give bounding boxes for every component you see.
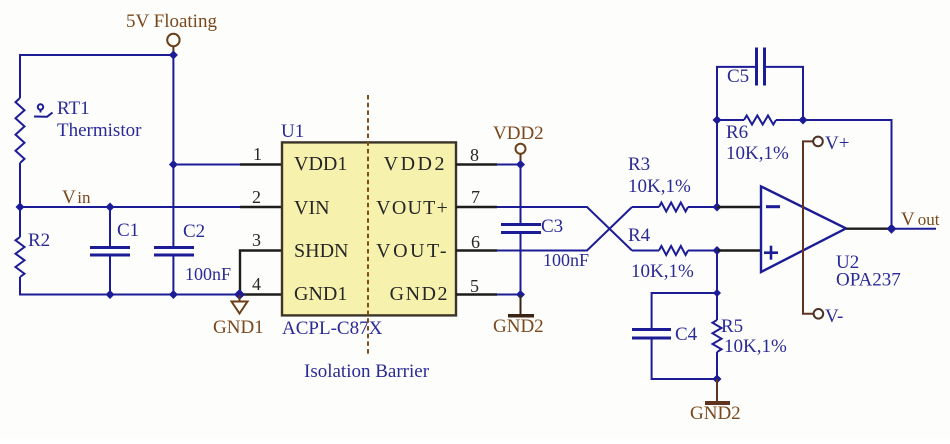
wire R3 left lead xyxy=(632,206,659,208)
wire R4 left lead xyxy=(632,250,659,252)
wire pin8 to VDD2 node xyxy=(497,164,521,166)
wire top rail from left rail to 5V node xyxy=(20,54,174,56)
node GND1 junction xyxy=(234,289,245,300)
pin 2 of U1 xyxy=(240,206,282,208)
label V out xyxy=(901,209,940,230)
node R6 left xyxy=(713,116,722,125)
svg-text:Vin: Vin xyxy=(62,187,91,208)
node inverting input xyxy=(713,203,722,212)
label Vin xyxy=(62,187,91,208)
label C3 xyxy=(541,216,563,237)
pin 6 of U1 xyxy=(456,249,497,251)
node output xyxy=(887,224,897,234)
wire left rail Vin to R2 xyxy=(19,207,21,237)
svg-text:7: 7 xyxy=(471,187,480,207)
wire feedback top to output xyxy=(803,120,892,229)
pin 8 of U1 xyxy=(456,163,497,165)
svg-text:R4: R4 xyxy=(628,225,651,246)
label Thermistor xyxy=(57,120,142,141)
svg-text:5V Floating: 5V Floating xyxy=(126,11,217,32)
svg-text:R3: R3 xyxy=(628,154,650,175)
svg-text:10K,1%: 10K,1% xyxy=(724,336,787,357)
wire feedback left vertical xyxy=(716,120,718,207)
label 100nF C3 xyxy=(543,250,589,270)
label R4 xyxy=(628,225,651,246)
label U2 xyxy=(836,252,859,273)
wire C5 loop left xyxy=(717,67,756,120)
label C5 xyxy=(727,66,749,87)
label GND2 under C3 xyxy=(493,316,544,337)
svg-text:100nF: 100nF xyxy=(543,250,589,270)
wire Vin rail xyxy=(20,206,241,208)
resistor R3 xyxy=(659,203,688,212)
label pin 6 xyxy=(471,232,480,252)
wire C4 top branch xyxy=(652,293,717,328)
resistor R5 xyxy=(713,320,722,352)
svg-text:Thermistor: Thermistor xyxy=(57,120,142,141)
label 100nF xyxy=(185,264,231,284)
svg-text:3: 3 xyxy=(252,230,261,250)
resistor R2 xyxy=(16,237,25,277)
ground GND2 (under C3) xyxy=(508,295,534,316)
terminal V+ xyxy=(813,137,823,147)
wire R5 top lead xyxy=(716,293,718,320)
svg-text:Isolation Barrier: Isolation Barrier xyxy=(304,361,430,382)
label pin 7 xyxy=(471,187,480,207)
svg-text:8: 8 xyxy=(470,145,479,165)
wire R5 bottom lead xyxy=(716,352,718,379)
label pin 4 xyxy=(252,274,261,294)
svg-text:OPA237: OPA237 xyxy=(836,270,901,291)
pin name VDD2 xyxy=(384,153,447,175)
label U1 xyxy=(281,121,304,142)
wire left rail upper (to RT1) xyxy=(19,54,21,98)
label GND2 bottom xyxy=(690,403,741,424)
label RT1 xyxy=(57,98,90,119)
wire R6 right lead xyxy=(776,119,803,121)
label R6 xyxy=(726,122,748,143)
op-amp U2 input pin plus xyxy=(717,249,761,251)
wire pin5 to C3 bottom xyxy=(497,294,521,296)
svg-text:C5: C5 xyxy=(727,66,749,87)
label C1 xyxy=(117,220,139,241)
isolation barrier dashed line xyxy=(367,95,369,355)
label Isolation Barrier xyxy=(304,361,430,382)
pin 3 of U1 (SHDN to GND1) xyxy=(240,251,282,295)
terminal 5V Floating xyxy=(167,34,179,53)
op-amp U2 triangle xyxy=(761,186,846,272)
wire 5V vertical down to C2 xyxy=(172,55,174,247)
pin 7 of U1 xyxy=(456,206,497,208)
svg-text:R2: R2 xyxy=(28,230,50,251)
node GND2 bottom xyxy=(713,375,722,384)
svg-text:GND2: GND2 xyxy=(390,283,449,305)
pin name VOUT+ xyxy=(376,197,449,219)
label R5 xyxy=(721,316,743,337)
node C4 branch xyxy=(713,289,721,297)
label 5V Floating xyxy=(126,11,217,32)
op-amp U2 input pin minus xyxy=(717,206,761,208)
label V+ xyxy=(825,133,849,154)
terminal VDD2 xyxy=(516,144,526,163)
svg-text:10K,1%: 10K,1% xyxy=(628,176,691,197)
svg-text:2: 2 xyxy=(252,187,261,207)
label GND1 xyxy=(213,317,264,338)
svg-text:VOUT-: VOUT- xyxy=(376,240,449,262)
pin name VDD1 xyxy=(294,153,347,175)
wire VOUT- net to crossover xyxy=(497,207,632,251)
wire C4 bottom branch xyxy=(652,339,717,379)
label pin 8 xyxy=(470,145,479,165)
capacitor C5 xyxy=(757,48,765,86)
wire RT1 to Vin rail xyxy=(19,163,21,207)
label pin 2 xyxy=(252,187,261,207)
label pin 3 xyxy=(252,230,261,250)
ground GND1 xyxy=(232,295,248,314)
wire pin1 net xyxy=(173,164,241,166)
capacitor C2 xyxy=(154,248,194,295)
svg-text:V-: V- xyxy=(825,306,843,327)
label ACPL-C87X xyxy=(282,318,383,339)
wire V+ V- power vertical xyxy=(803,141,813,313)
svg-text:10K,1%: 10K,1% xyxy=(631,261,694,282)
wire C5 loop right xyxy=(765,67,803,120)
wire VOUT+ net to crossover xyxy=(497,207,632,251)
capacitor C4 xyxy=(632,330,671,339)
label pin 1 xyxy=(253,144,262,164)
svg-text:R5: R5 xyxy=(721,316,743,337)
svg-text:GND2: GND2 xyxy=(493,316,544,337)
capacitor C3 xyxy=(501,165,541,295)
wire plus node down xyxy=(716,251,718,294)
pin 1 of U1 xyxy=(240,163,282,165)
label C2 xyxy=(183,221,205,242)
svg-text:C2: C2 xyxy=(183,221,205,242)
svg-text:1: 1 xyxy=(253,144,262,164)
node Vin/C1 xyxy=(106,203,115,212)
svg-text:VIN: VIN xyxy=(294,197,330,219)
svg-text:C1: C1 xyxy=(117,220,139,241)
label R5 value xyxy=(724,336,787,357)
pin name VOUT- xyxy=(376,240,449,262)
IC U1 body ACPL-C87X xyxy=(282,142,456,315)
pin name GND2 xyxy=(390,283,449,305)
node C1 bottom xyxy=(106,290,115,299)
label R3 xyxy=(628,154,650,175)
label VDD2 xyxy=(493,123,544,144)
wire bottom rail GND1 xyxy=(19,294,240,296)
label R3 value xyxy=(628,176,691,197)
svg-text:SHDN: SHDN xyxy=(294,240,348,262)
svg-text:VOUT+: VOUT+ xyxy=(376,197,449,219)
wire R4 right lead to node xyxy=(688,250,717,252)
svg-text:GND1: GND1 xyxy=(294,283,347,305)
svg-text:100nF: 100nF xyxy=(185,264,231,284)
label R4 value xyxy=(631,261,694,282)
thermistor RT1 xyxy=(16,98,53,163)
label R2 xyxy=(28,230,50,251)
svg-text:C4: C4 xyxy=(675,324,698,345)
svg-text:R6: R6 xyxy=(726,122,748,143)
node VDD2 junction xyxy=(516,160,525,169)
svg-text:Vout: Vout xyxy=(901,209,940,230)
svg-text:4: 4 xyxy=(252,274,261,294)
label pin 5 xyxy=(470,276,479,296)
wire output to Vout xyxy=(892,228,937,230)
resistor R6 xyxy=(744,116,776,125)
svg-text:U1: U1 xyxy=(281,121,304,142)
pin name GND1 xyxy=(294,283,347,305)
pin name VIN xyxy=(294,197,330,219)
svg-text:V+: V+ xyxy=(825,133,849,154)
node R6 right xyxy=(799,116,808,125)
svg-text:VDD2: VDD2 xyxy=(493,123,544,144)
ground GND2 (bottom) xyxy=(705,379,730,403)
resistor R4 xyxy=(659,246,688,255)
svg-text:10K,1%: 10K,1% xyxy=(726,143,789,164)
svg-text:RT1: RT1 xyxy=(57,98,90,119)
node C2 bottom xyxy=(169,290,178,299)
node 5V corner xyxy=(169,51,178,60)
label V- xyxy=(825,306,843,327)
svg-text:VDD1: VDD1 xyxy=(294,153,347,175)
wire R3 right lead to node xyxy=(688,206,717,208)
label R6 value xyxy=(726,143,789,164)
node pin1 junction xyxy=(169,160,178,169)
label OPA237 xyxy=(836,270,901,291)
pin name SHDN xyxy=(294,240,348,262)
pin 4 of U1 xyxy=(240,293,282,295)
wire R6 left lead xyxy=(717,119,744,121)
svg-text:GND2: GND2 xyxy=(690,403,741,424)
capacitor C1 xyxy=(90,207,130,295)
svg-text:C3: C3 xyxy=(541,216,563,237)
svg-text:6: 6 xyxy=(471,232,480,252)
node noninverting input xyxy=(713,246,722,255)
terminal V- xyxy=(814,309,824,319)
node C3 bottom xyxy=(516,290,525,299)
op-amp output pin xyxy=(846,227,892,229)
svg-text:VDD2: VDD2 xyxy=(384,153,447,175)
label C4 xyxy=(675,324,698,345)
wire left rail R2 to bottom rail xyxy=(19,277,21,296)
svg-text:GND1: GND1 xyxy=(213,317,264,338)
svg-text:5: 5 xyxy=(470,276,479,296)
pin 5 of U1 xyxy=(456,293,497,295)
node Vin left xyxy=(16,203,25,212)
